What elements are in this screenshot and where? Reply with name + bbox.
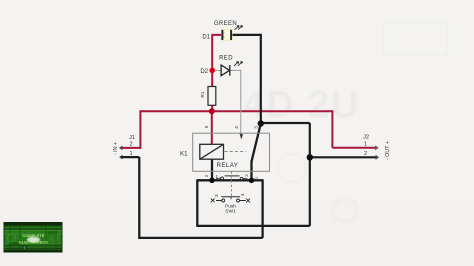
LED D1 (green) highlighted (221, 29, 232, 40)
wire: SW1 loop right (261, 179, 263, 238)
LED D2 arrows (234, 62, 242, 66)
wire: D1 cathode to right corner (black) (232, 34, 261, 36)
svg-text:- IN +: - IN + (113, 142, 119, 155)
wire: bottom return to J1 (139, 237, 262, 239)
wire: J2 pin2 stub (black) (310, 156, 377, 158)
relay K1 moving contact arrow (240, 134, 242, 137)
wire: SW1 loop top (197, 179, 262, 181)
svg-text:GREEN: GREEN (214, 21, 237, 27)
LED D1 arrows (235, 26, 243, 30)
svg-text:1: 1 (216, 174, 219, 179)
wire: black drop to relay contact node (260, 34, 262, 124)
wire: R1 bottom stub (red) (211, 105, 213, 111)
watermark logo (4, 222, 63, 253)
wire: D2 node up to D1 corner (red) (212, 35, 221, 71)
svg-text:1: 1 (129, 151, 132, 157)
svg-text:2: 2 (244, 174, 249, 177)
svg-text:Push: Push (225, 203, 236, 209)
node: junction at R1 bottom (209, 108, 215, 114)
op box: relay K1 body (193, 133, 270, 171)
relay K1 mechanical link dashed (225, 151, 247, 153)
svg-text:J2: J2 (363, 135, 369, 141)
svg-text:1: 1 (364, 141, 367, 147)
relay K1 coil (200, 144, 224, 159)
wire: relay coil bottom pin (211, 159, 213, 180)
wire: SW1 loop left (196, 179, 198, 226)
wire: R1 top to D2 node (red) (211, 70, 213, 86)
svg-text:RED: RED (219, 56, 233, 62)
node: junction at D2 anode (209, 68, 215, 74)
wire: main IN+ horizontal bus (139, 110, 332, 112)
node: junction black right (307, 154, 313, 160)
svg-text:5: 5 (204, 125, 209, 128)
wire: left riser to J1 pin1 (138, 157, 140, 239)
wire: D2 anode stub (gray) (215, 69, 221, 71)
no-connect X left (211, 198, 215, 202)
switch SW1 lower pole (push button) (216, 197, 246, 202)
svg-text:2: 2 (129, 142, 132, 148)
svg-text:2: 2 (364, 151, 367, 157)
node: junction black top (258, 120, 264, 126)
wire: J1 pin1 stub (black) (121, 156, 140, 158)
resistor R1 (208, 87, 216, 106)
svg-text:RELAY: RELAY (217, 162, 239, 169)
svg-text:D2: D2 (200, 69, 208, 75)
svg-text:- OUT +: - OUT + (385, 141, 391, 160)
svg-text:K1: K1 (180, 151, 188, 158)
connector J1 pin marks (120, 146, 123, 159)
svg-text:4: 4 (234, 126, 239, 129)
svg-text:4: 4 (240, 193, 245, 196)
switch SW1 pole link dashed (230, 172, 232, 197)
wire: J1 pin2 stub (red) (121, 147, 141, 149)
no-connect X right (246, 199, 250, 203)
wire: J2 pin1 stub (red) (332, 147, 376, 149)
wire: relay common pin down (250, 161, 252, 181)
node: junction SW1 left (209, 178, 215, 184)
svg-text:SW1: SW1 (225, 209, 236, 215)
svg-text:R1: R1 (200, 91, 206, 97)
svg-text:J1: J1 (129, 135, 135, 141)
wire: contact node to right (261, 122, 310, 124)
svg-text:2: 2 (204, 174, 209, 177)
svg-text:D1: D1 (202, 35, 210, 41)
node: junction SW1 right (249, 178, 255, 184)
connector J2 pin marks (375, 146, 378, 159)
svg-text:3: 3 (214, 194, 219, 197)
svg-text:e: e (24, 246, 26, 250)
wire: IN+ riser from J1 (139, 111, 141, 149)
wire: relay armature diagonal (252, 124, 261, 162)
wire: relay coil feed (red) (211, 111, 213, 144)
svg-text:3: 3 (254, 126, 259, 129)
ghost watermark shapes (243, 23, 447, 222)
switch SW1 upper pole (216, 176, 248, 180)
LED D2 (red) (221, 65, 230, 76)
wire: J2 drop (red) (331, 110, 333, 148)
svg-text:1: 1 (254, 176, 259, 179)
wire: right vertical black (309, 123, 311, 226)
wire: D2 cathode to relay NO contact (gray) (230, 70, 241, 133)
wire: SW1 loop bottom (196, 225, 309, 227)
